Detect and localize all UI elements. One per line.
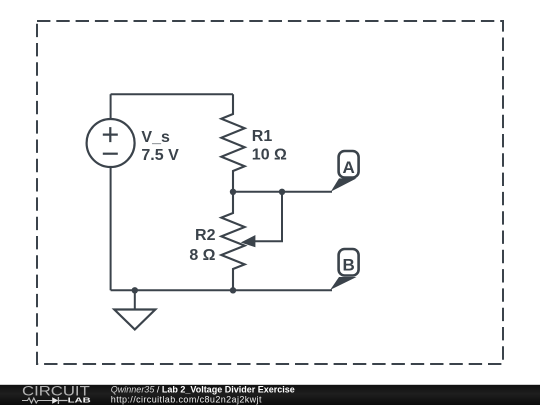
label R2 value xyxy=(189,227,215,264)
CircuitLab logo wordmark CIRCUIT xyxy=(22,384,90,399)
wire bottom row (V_s bottom to node B) xyxy=(111,289,332,291)
CircuitLab logo wordmark LAB xyxy=(68,396,92,405)
footer url text xyxy=(111,394,262,404)
wire top (V_s top to R1 top) xyxy=(111,93,233,95)
junction dot R1/R2/A xyxy=(230,189,236,195)
svg-text:V_s: V_s xyxy=(141,129,170,146)
svg-text:A: A xyxy=(343,158,355,177)
junction dot R2 bottom xyxy=(230,287,236,293)
wire wiper tap (down from middle row to wiper arm) xyxy=(254,192,282,241)
label R1 value xyxy=(252,128,287,164)
junction dot wiper tap xyxy=(279,189,285,195)
potentiometer R2 wiper arrow xyxy=(241,235,256,247)
svg-text:R2: R2 xyxy=(195,227,216,244)
potentiometer R2 xyxy=(221,192,244,290)
label V_s value xyxy=(141,129,179,164)
footer title text xyxy=(111,384,295,394)
node B flag xyxy=(330,249,358,290)
svg-text:7.5 V: 7.5 V xyxy=(141,147,179,164)
svg-text:LAB: LAB xyxy=(68,396,92,405)
wire middle row (R1 bottom to node A) xyxy=(233,191,332,193)
ground xyxy=(114,290,155,329)
svg-text:Qwinner35 / Lab 2_Voltage Divi: Qwinner35 / Lab 2_Voltage Divider Exerci… xyxy=(111,384,295,394)
CircuitLab logo resistor-diode glyph xyxy=(22,397,68,404)
voltage source V_s xyxy=(87,119,135,167)
svg-text:B: B xyxy=(342,255,354,274)
junction dot ground xyxy=(132,287,138,293)
svg-text:8 Ω: 8 Ω xyxy=(189,247,215,264)
footer bar xyxy=(0,385,540,405)
wire V_s bottom stub xyxy=(110,167,112,290)
svg-text:10 Ω: 10 Ω xyxy=(252,147,287,164)
svg-text:http://circuitlab.com/c8u2n2aj: http://circuitlab.com/c8u2n2aj2kwjt xyxy=(111,394,262,404)
resistor R1 xyxy=(221,94,244,192)
svg-text:R1: R1 xyxy=(252,128,273,145)
schematic dashed boundary frame xyxy=(37,21,503,364)
node A flag xyxy=(331,151,359,192)
wire V_s top stub xyxy=(110,94,112,119)
